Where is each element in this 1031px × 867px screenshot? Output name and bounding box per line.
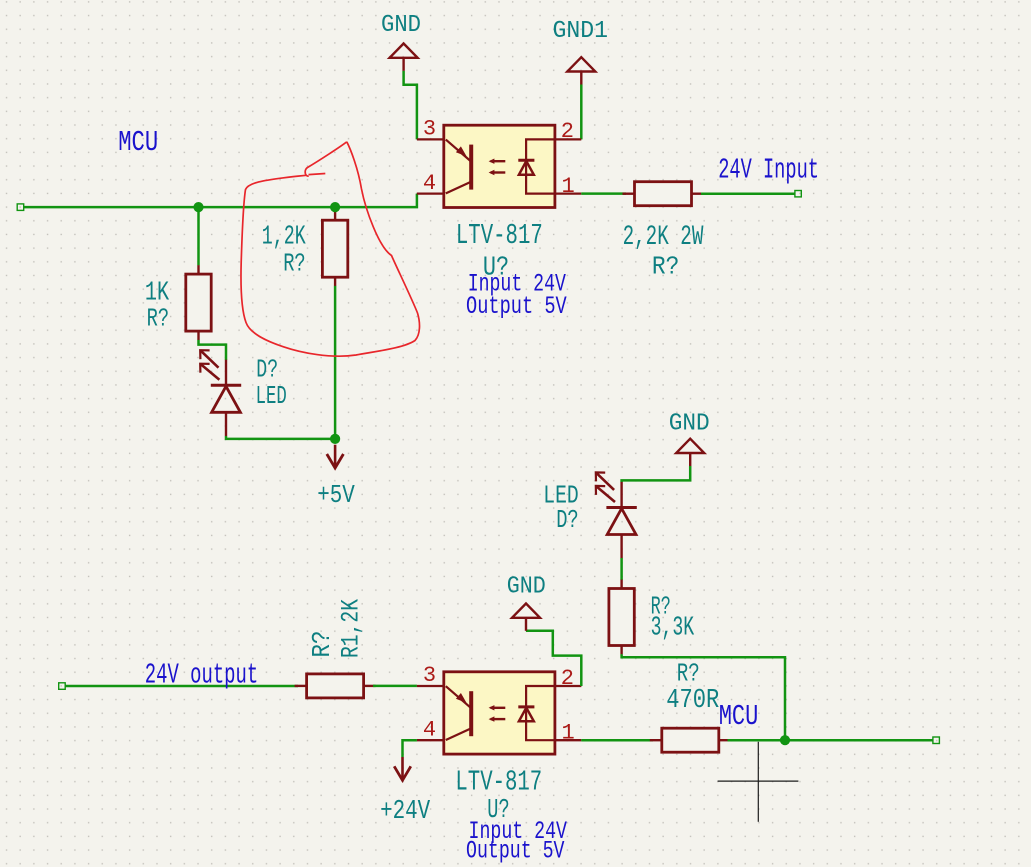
crosshair cursor [718,742,799,822]
optocoupler U? LTV-817 (top) [417,125,581,207]
ground GND1 [567,57,595,84]
resistor R? 1,2K [322,211,347,286]
junction C [330,434,340,444]
red freehand scribble loop [241,142,420,356]
wire: LED D? down to junction C [226,436,335,439]
optocoupler U? LTV-817 (bottom) [417,672,581,754]
resistor R? 3,3K [609,580,634,655]
resistor R? R1,2K [295,674,376,698]
svg-text:2: 2 [561,119,574,144]
svg-text:Output 5V: Output 5V [466,292,567,321]
svg-text:4: 4 [423,717,436,742]
svg-text:3: 3 [423,663,436,688]
wire: GND drop to pin 3 [404,71,417,140]
wire: resistor 3,3K right and down to junction D [622,654,785,740]
wire: junction B down to resistor 1,2K [334,207,337,212]
svg-text:Output 5V: Output 5V [466,837,565,866]
svg-text:R?: R? [677,658,700,688]
resistor R? 470R [650,728,731,752]
wire: GND staircase to pin 2 (bottom opto) [526,631,581,686]
LED D? (top circuit) [200,350,241,436]
power +5V arrow [327,445,344,468]
svg-text:1: 1 [562,174,575,199]
svg-text:+24V: +24V [380,797,431,827]
svg-text:3: 3 [423,116,436,141]
svg-text:R?: R? [652,252,680,282]
svg-text:GND: GND [381,12,421,39]
ground GND (bottom left) [512,604,540,631]
wire: main MCU net horizontal + jog up to pin 4 [24,194,417,208]
resistor R? 1K [186,265,211,340]
wire end square (MCU net, left) [17,204,24,211]
wire: GND to LED D? (bottom circuit) [622,466,691,482]
svg-text:R1,2K: R1,2K [337,599,366,658]
svg-text:24V Input: 24V Input [718,153,819,186]
wire: junction A down to resistor 1K [197,207,200,265]
resistor R? 2,2K 2W [623,182,704,206]
wire: resistor 1K to LED D? [199,340,227,360]
wire end square (24V Input, right) [795,191,801,197]
svg-text:R?: R? [147,303,170,333]
svg-text:2,2K 2W: 2,2K 2W [623,222,704,253]
wire: pin 1 to resistor 470R [581,739,653,742]
svg-text:2: 2 [561,666,574,691]
svg-text:D?: D? [556,505,579,535]
ground GND (top) [390,44,418,71]
svg-text:R?: R? [307,631,337,658]
svg-text:MCU: MCU [118,126,158,159]
svg-text:3,3K: 3,3K [651,614,695,644]
power +24V arrow [394,757,411,780]
svg-text:1: 1 [562,720,575,745]
svg-text:+5V: +5V [317,480,355,510]
svg-text:D?: D? [256,354,278,384]
wire: resistor 2,2K to 24V Input end [701,192,795,195]
wire: resistor 470R through junction D to MCU end [728,739,933,742]
svg-text:R?: R? [283,249,306,279]
wire: GND1 drop to pin 2 [580,85,583,140]
wire: 24V output to resistor R1,2K [65,685,298,688]
wire: LED D? to resistor 3,3K [620,558,623,580]
junction B [330,202,340,212]
svg-text:LTV-817: LTV-817 [455,766,542,799]
junction A [193,202,203,212]
svg-text:470R: 470R [666,686,719,716]
svg-text:GND: GND [507,573,546,600]
ground GND (bottom right) [676,439,704,466]
wire: resistor 1,2K down to junction C [334,286,337,439]
wire: resistor R1,2K to pin 3 (bottom opto) [373,685,417,688]
svg-text:4: 4 [423,171,436,196]
wire: pin 4 to +24V [403,740,417,757]
junction D [780,735,790,745]
svg-text:GND1: GND1 [553,18,609,45]
svg-text:GND: GND [669,410,710,437]
svg-text:24V output: 24V output [145,658,258,691]
svg-text:MCU: MCU [719,700,759,733]
wire end square (MCU net, bottom right) [933,737,940,744]
wire end square (24V output, left) [59,683,65,690]
LED D? (bottom circuit) [596,472,637,558]
svg-text:LED: LED [256,381,287,411]
wire: pin 1 to resistor 2,2K [581,192,626,195]
svg-text:LTV-817: LTV-817 [456,219,543,252]
